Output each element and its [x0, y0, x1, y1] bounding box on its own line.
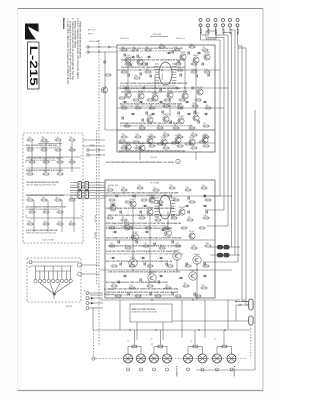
svg-text:4.8: 4.8	[150, 339, 152, 341]
svg-text:change the circuit and specifi: change the circuit and specifications	[78, 21, 81, 59]
labels channel1 t2	[121, 59, 186, 62]
aux input terminals	[83, 290, 103, 310]
svg-text:220P 100K C207 R118 330 220P 3: 220P 100K C207 R118 330 220P 33K	[26, 147, 57, 149]
resistor row extra ch1	[119, 63, 202, 101]
svg-text:ST104 a-b: ST104 a-b	[120, 38, 129, 40]
resistor R301	[107, 187, 114, 191]
resistor R419	[69, 197, 76, 201]
power amp outline	[105, 180, 215, 298]
labels tone5	[26, 229, 58, 234]
labels channel1 mid	[120, 82, 188, 90]
block2 caption	[108, 182, 160, 188]
resistor R207	[203, 134, 210, 138]
transistor Q207	[139, 143, 145, 151]
resistor R315	[109, 243, 116, 247]
transistor Q202	[161, 137, 167, 145]
labels channel1 t3	[121, 91, 188, 94]
svg-text:R118 100K 2SA1015 C112 2.2K C1: R118 100K 2SA1015 C112 2.2K C112 560 10/…	[121, 59, 186, 62]
resistor R111	[177, 67, 184, 71]
svg-text:C207 1S1555 C207 6.8K 6.8K 2SC: C207 1S1555 C207 6.8K 6.8K 2SC1815 C112 …	[106, 237, 182, 240]
transistor Q106	[125, 90, 132, 98]
resistor R209	[135, 145, 142, 149]
wire poweramp h2	[100, 269, 232, 270]
resistor R408	[69, 147, 76, 151]
labels poweramp2	[106, 222, 182, 230]
svg-text:REC OUT: REC OUT	[88, 30, 96, 32]
svg-text:47K 330 10/50 8.2K R215 100K C: 47K 330 10/50 8.2K R215 100K C207 15K R3…	[106, 281, 168, 284]
svg-text:560: 560	[56, 197, 59, 199]
labels poweramp5	[106, 237, 182, 240]
transistor Q105	[204, 52, 211, 60]
svg-text:220P 1S1555 R118 C207 4.7K C30: 220P 1S1555 R118 C207 4.7K C304 560 C112…	[106, 295, 171, 297]
svg-text:560 R215 1S1555 15K 100 2.2K 4: 560 R215 1S1555 15K 100 2.2K 4.7K 0.47 4…	[119, 51, 180, 53]
wire channel1 v1	[128, 60, 196, 116]
resistor row extra ch2	[119, 140, 206, 145]
svg-text:B SPEAKER: B SPEAKER	[175, 366, 178, 377]
resistor R104	[159, 44, 166, 48]
power bus wires	[220, 30, 246, 305]
svg-text:33K 33K 100/25 100 0.022 C112: 33K 33K 100/25 100 0.022 C112 33K 1S1555…	[120, 106, 185, 108]
speaker terminals	[124, 347, 237, 378]
svg-text:330: 330	[188, 217, 191, 219]
svg-text:2SC945: 2SC945	[189, 137, 195, 139]
transistor Q312	[149, 194, 156, 203]
transistor Q104	[193, 55, 199, 63]
resistor R205	[177, 134, 184, 138]
labels poweramp8	[106, 207, 175, 210]
svg-text:2SC1815: 2SC1815	[204, 52, 211, 54]
input rail second dashed	[96, 130, 98, 284]
svg-text:C611 NAP: C611 NAP	[40, 141, 50, 144]
svg-text:ST104 c-d: ST104 c-d	[176, 38, 185, 40]
fuse holder F3	[235, 299, 253, 310]
svg-text:2SC945: 2SC945	[130, 257, 136, 259]
resistor R313	[187, 217, 194, 221]
transistor Q302	[124, 222, 130, 230]
wire channel1 h1	[117, 69, 220, 70]
resistor R416	[27, 197, 34, 201]
svg-text:4.7K 6.8K 15K 1K(B) R215 0.022: 4.7K 6.8K 15K 1K(B) R215 0.022 220P	[26, 209, 58, 211]
transistor Q309	[129, 257, 137, 267]
svg-text:100: 100	[44, 221, 47, 223]
speaker R row	[127, 330, 232, 348]
svg-text:2SB834: 2SB834	[193, 55, 199, 57]
wire tone h3	[27, 194, 80, 196]
svg-text:M5218P: M5218P	[162, 73, 164, 80]
svg-text:2SD880: 2SD880	[161, 137, 167, 139]
transistor Q301	[130, 198, 136, 207]
svg-text:560: 560	[136, 145, 139, 147]
transistor Q110	[182, 91, 188, 99]
diodes channel 1	[123, 52, 209, 115]
resistor R308	[107, 215, 114, 219]
transistor Q115	[193, 113, 200, 121]
svg-text:MODEL 2301: MODEL 2301	[104, 289, 114, 291]
output rail	[93, 307, 250, 331]
resistor R208	[121, 145, 128, 149]
tone to main wires	[83, 140, 105, 146]
input bus dashed wire	[98, 40, 100, 345]
resistor R320	[191, 245, 198, 249]
transistor Q101	[125, 55, 131, 63]
resistor R326	[183, 283, 190, 287]
labels tone7	[26, 194, 63, 197]
labels channel2	[119, 142, 180, 145]
svg-text:2SC945: 2SC945	[189, 231, 195, 233]
resistor R417	[41, 197, 48, 201]
resistor R322	[111, 283, 118, 287]
input terminal PHONO	[87, 41, 117, 53]
resistor R214	[203, 143, 210, 147]
resistor R105	[174, 47, 181, 51]
svg-text:24: 24	[177, 161, 179, 163]
svg-text:MODEL 2302: MODEL 2302	[104, 294, 114, 296]
transistor Q205	[202, 134, 209, 143]
svg-text:100: 100	[156, 217, 159, 219]
fuse F2	[210, 253, 240, 257]
resistor R119	[192, 103, 199, 107]
transistor Q304	[147, 206, 154, 215]
resistor R210	[149, 143, 156, 147]
speaker labels	[175, 366, 236, 377]
labels bottom left	[94, 215, 115, 296]
resistor R103	[145, 47, 152, 51]
svg-text:IN L: IN L	[25, 160, 27, 163]
resistor R107	[202, 47, 209, 51]
resistor R407	[55, 147, 62, 151]
transistor Q303	[132, 232, 139, 241]
resistor R123	[157, 125, 164, 129]
svg-text:100K 1K(B) 100 2.2K 10/50 6.8K: 100K 1K(B) 100 2.2K 10/50 6.8K 100/25 2S…	[121, 91, 188, 94]
tone board vertical wires	[32, 142, 74, 232]
svg-text:PRE OUT: PRE OUT	[94, 215, 96, 223]
resistor R324	[147, 283, 154, 287]
labels channel1 top	[119, 47, 183, 53]
wire channel2 h1	[117, 142, 215, 143]
svg-text:2SC1815 C304 6.8K 1S1555 47K 6: 2SC1815 C304 6.8K 1S1555 47K 6.8K 100/25	[26, 194, 63, 197]
transistor Q107	[138, 91, 144, 99]
svg-text:560: 560	[70, 137, 73, 139]
svg-text:100: 100	[58, 221, 61, 223]
resistor R316	[125, 245, 132, 249]
svg-text:L-215: L-215	[27, 46, 39, 86]
svg-text:SW PW: SW PW	[66, 306, 72, 308]
resistor R303	[137, 185, 144, 189]
resistor R318	[159, 245, 166, 249]
resistor R202	[135, 134, 142, 138]
wire tone h4	[27, 217, 80, 219]
resistor R125	[189, 125, 196, 129]
resistor R115	[135, 105, 142, 109]
resistor R102	[132, 47, 139, 51]
svg-text:2SC1815: 2SC1815	[179, 207, 186, 209]
resistor R327	[201, 285, 208, 289]
labels poweramp3	[106, 250, 184, 256]
transistor Q314	[179, 207, 186, 215]
svg-text:560: 560	[203, 47, 206, 49]
resistor R401	[27, 137, 34, 141]
resistor R413	[27, 171, 34, 175]
labels poweramp10	[108, 245, 181, 248]
resistor R203	[149, 134, 156, 138]
labels tone2	[26, 157, 63, 162]
resistor R402	[41, 137, 48, 141]
amp block partition	[117, 129, 215, 131]
svg-text:330: 330	[122, 217, 125, 219]
svg-text:2SB834: 2SB834	[194, 254, 200, 256]
labels channel1 bottom	[120, 123, 193, 128]
svg-text:PB IN: PB IN	[88, 34, 93, 36]
resistor R325	[165, 285, 172, 289]
IC Q201 flat pack	[155, 195, 176, 219]
transistor Q201	[147, 136, 153, 144]
amp block L channel outline	[117, 45, 215, 152]
resistor rows extra poweramp	[109, 199, 212, 297]
svg-text:330 1K(B) 2SC1815 100/25 2.2K: 330 1K(B) 2SC1815 100/25 2.2K 0.022 220P…	[120, 126, 193, 128]
sheet frame right	[196, 110, 255, 370]
resistor R404	[69, 137, 76, 141]
resistor R420	[29, 209, 36, 213]
resistor R118	[177, 105, 184, 109]
resistor R314	[203, 215, 210, 219]
Luxman logo	[25, 24, 39, 40]
capacitors power amp	[116, 195, 205, 284]
svg-text:PHONO MM: PHONO MM	[89, 41, 100, 43]
page sheet border	[18, 9, 264, 391]
svg-text:15K 220P C112 6.8K 1S1555 8.2K: 15K 220P C112 6.8K 1S1555 8.2K 100/25 6.…	[108, 289, 179, 291]
svg-text:4.8: 4.8	[214, 339, 216, 341]
svg-text:560 C207 1S1555 1S1555 C207 2S: 560 C207 1S1555 1S1555 C207 2SC1815 2SC1…	[106, 254, 184, 256]
transistor Q311	[189, 270, 197, 280]
bus extra corners	[238, 46, 249, 305]
resistor R307	[201, 185, 208, 189]
resistor R426	[69, 221, 76, 225]
transistor Q313	[110, 203, 116, 211]
svg-text:Remarks: Remarks	[62, 18, 66, 30]
IC Q101 flat pack	[155, 62, 177, 85]
svg-text:R309 33K 4.7K 47K 100 47K C112: R309 33K 4.7K 47K 100 47K C112 0.022 R21…	[119, 142, 180, 145]
resistor R418	[55, 197, 62, 201]
svg-text:C56 F/B: C56 F/B	[150, 157, 157, 159]
svg-text:C57B CAP: C57B CAP	[152, 33, 162, 36]
resistor R414	[43, 171, 50, 175]
svg-text:MAIN IN: MAIN IN	[94, 232, 97, 239]
bus stubs	[203, 195, 246, 300]
svg-text:33K C207 R309 220P 560 0.47 56: 33K C207 R309 220P 560 0.47 560 100/25 R…	[106, 161, 175, 164]
resistor R422	[57, 209, 64, 213]
svg-text:100: 100	[192, 145, 195, 147]
resistor R406	[41, 147, 48, 151]
svg-text:220P 560 8.2K 2SC1815 220P 4.7: 220P 560 8.2K 2SC1815 220P 4.7K 2SC1815	[26, 169, 63, 172]
svg-text:560: 560	[42, 137, 45, 139]
labels poweramp9	[108, 214, 181, 217]
resistor R117	[163, 103, 170, 107]
labels tone4	[26, 206, 66, 211]
resistor R302	[121, 187, 128, 191]
svg-text:6.8K C112 1S1555 2SC1815 100K: 6.8K C112 1S1555 2SC1815 100K 100 C112 2…	[108, 271, 180, 274]
wire tone h2	[27, 167, 80, 169]
remarks notes	[62, 18, 81, 85]
resistor R317	[143, 243, 150, 247]
transistor Q102	[137, 56, 144, 65]
svg-text:10/50 R309 2.2K 330 C112 10/50: 10/50 R309 2.2K 330 C112 10/50 15K 33K 3…	[120, 88, 181, 90]
tape labels	[88, 30, 96, 36]
resistor R212	[177, 143, 184, 147]
fuse F1	[210, 245, 240, 249]
resistor R305	[169, 185, 176, 189]
resistor R101	[121, 47, 128, 51]
resistor R421	[43, 209, 50, 213]
labels channel1 low	[120, 103, 185, 109]
resistor R424	[43, 221, 50, 225]
resistor R311	[155, 217, 162, 221]
svg-text:100K 47K 10/50 C112 6.8K 330 0: 100K 47K 10/50 C112 6.8K 330 0.022	[26, 232, 56, 234]
resistor R204	[163, 132, 170, 136]
transistor Q307	[189, 231, 195, 239]
transistor Q113	[163, 113, 170, 122]
svg-text:47K C112 C207 R118 R215 33K C1: 47K C112 C207 R118 R215 33K C112 2SA1015…	[106, 260, 173, 263]
model label L-215	[27, 42, 39, 89]
resistor R321	[205, 243, 212, 247]
tone board outline	[23, 133, 83, 243]
labels poweramp7	[106, 281, 168, 284]
labels tone1	[26, 144, 57, 149]
labels poweramp4	[106, 291, 179, 297]
resistor R309	[121, 217, 128, 221]
resistor R116	[149, 105, 156, 109]
resistor R411	[57, 159, 64, 163]
transistor Q204	[189, 137, 195, 145]
capacitors channel 1	[124, 51, 209, 115]
wire input branch	[101, 52, 111, 130]
svg-text:ST-7L NAP: ST-7L NAP	[150, 182, 160, 185]
relay block	[130, 304, 172, 322]
wire tone h1	[27, 156, 80, 158]
transistor Q114	[178, 116, 185, 124]
svg-text:100 0.47 1K(B) 100 220P R215 C: 100 0.47 1K(B) 100 220P R215 C112	[26, 184, 56, 186]
connector CN1	[70, 182, 105, 199]
svg-text:MODEL R04: MODEL R04	[108, 185, 118, 187]
bottom vertical wires	[120, 300, 228, 345]
power switch parts	[29, 261, 99, 309]
resistor R403	[55, 137, 62, 141]
input terminal TUNER	[87, 145, 105, 156]
resistor R423	[27, 221, 34, 225]
labels channel1 t4	[121, 66, 186, 69]
resistor R323	[129, 285, 136, 289]
svg-text:C207 0.022 C207 100/25 0.47 C3: C207 0.022 C207 100/25 0.47 C304 R215 1S…	[108, 214, 181, 217]
fuse holder F4	[172, 305, 253, 325]
resistor R106	[189, 44, 196, 48]
svg-text:2SC1815: 2SC1815	[178, 116, 185, 118]
resistor R120	[205, 105, 212, 109]
resistor R114	[121, 105, 128, 109]
svg-text:A SPEAKER: A SPEAKER	[233, 366, 236, 377]
resistor R108	[121, 69, 128, 73]
wire poweramp h1	[103, 195, 232, 196]
transistor Q206	[125, 142, 131, 150]
transistor Q305	[165, 228, 172, 237]
wire channel1 h3	[117, 107, 224, 108]
resistor R211	[163, 145, 170, 149]
resistor R201	[121, 134, 128, 138]
resistor R415	[57, 171, 64, 175]
resistor R405	[27, 147, 34, 151]
svg-text:C207 C112 1K(B) C304 R215 33K: C207 C112 1K(B) C304 R215 33K 100/25 0.0…	[106, 207, 175, 210]
transistor Q308	[193, 254, 201, 264]
svg-text:R118 330 100/25 1S1555 33K: R118 330 100/25 1S1555 33K	[132, 311, 158, 313]
labels channel2b	[119, 150, 186, 153]
transistor Q109	[167, 90, 173, 98]
resistor R121	[124, 123, 131, 127]
extra caps channel1	[122, 61, 203, 124]
resistor R213	[191, 145, 198, 149]
resistor R306	[185, 187, 192, 191]
svg-text:R215 2SC1815 2.2K C207 1S1555: R215 2SC1815 2.2K C207 1S1555 R215 560 0…	[119, 150, 186, 153]
top caption	[120, 31, 216, 40]
svg-text:150: 150	[164, 132, 167, 134]
labels poweramp6	[106, 260, 173, 263]
resistor R410	[43, 159, 50, 163]
labels tone6	[26, 169, 63, 172]
wire channel1 h4	[105, 129, 215, 131]
transistor Q203	[175, 135, 181, 143]
transistor Q111	[197, 87, 204, 95]
labels poweramp11	[108, 271, 180, 274]
resistor R112	[191, 69, 198, 73]
resistor R110	[145, 69, 152, 73]
resistor R122	[139, 125, 146, 129]
resistor R206	[191, 132, 198, 136]
svg-text:150: 150	[170, 185, 173, 187]
svg-text:1S1555 100/25 8.2K 100K R215 1: 1S1555 100/25 8.2K 100K R215 1S1555 4.7K…	[108, 245, 181, 248]
svg-text:C615L TONE: C615L TONE	[42, 240, 55, 242]
extra caps poweramp	[120, 211, 207, 296]
svg-text:2SD880: 2SD880	[147, 115, 153, 117]
svg-text:100 220P 4.7K 8.2K 15K 0.022 R: 100 220P 4.7K 8.2K 15K 0.022 R118	[26, 160, 55, 162]
power box outline	[27, 258, 81, 302]
transistor Q310	[148, 271, 156, 282]
resistor R113	[204, 69, 211, 73]
svg-text:L-1: L-1	[127, 341, 129, 343]
resistor R310	[139, 215, 146, 219]
resistor R425	[57, 221, 64, 225]
transistor Q112	[147, 115, 153, 123]
labels tone3	[26, 182, 60, 186]
terminal drop wires	[201, 27, 239, 44]
resistor R312	[171, 215, 178, 219]
svg-text:100 R215 6.8K R118 0.022 100K: 100 R215 6.8K R118 0.022 100K 2SA1015 C2…	[121, 66, 186, 69]
svg-text:L-1: L-1	[190, 341, 192, 343]
svg-text:560: 560	[164, 145, 167, 147]
resistor R409	[29, 159, 36, 163]
transistor Q103	[180, 51, 186, 60]
wire poweramp v1	[133, 207, 197, 300]
svg-text:150: 150	[28, 197, 31, 199]
labels poweramp1	[106, 192, 179, 198]
wire pre line	[90, 294, 103, 296]
power terminal strip	[199, 19, 239, 36]
transistor Q108	[152, 93, 159, 101]
resistor R126	[203, 123, 210, 127]
labels poweramp12	[108, 289, 179, 291]
tone board caption	[25, 141, 82, 242]
resistor R304	[153, 187, 160, 191]
bottom dashed wires	[92, 325, 251, 360]
transistor Q306	[173, 250, 181, 260]
svg-text:2SB834: 2SB834	[190, 270, 196, 272]
svg-text:330: 330	[58, 209, 61, 211]
